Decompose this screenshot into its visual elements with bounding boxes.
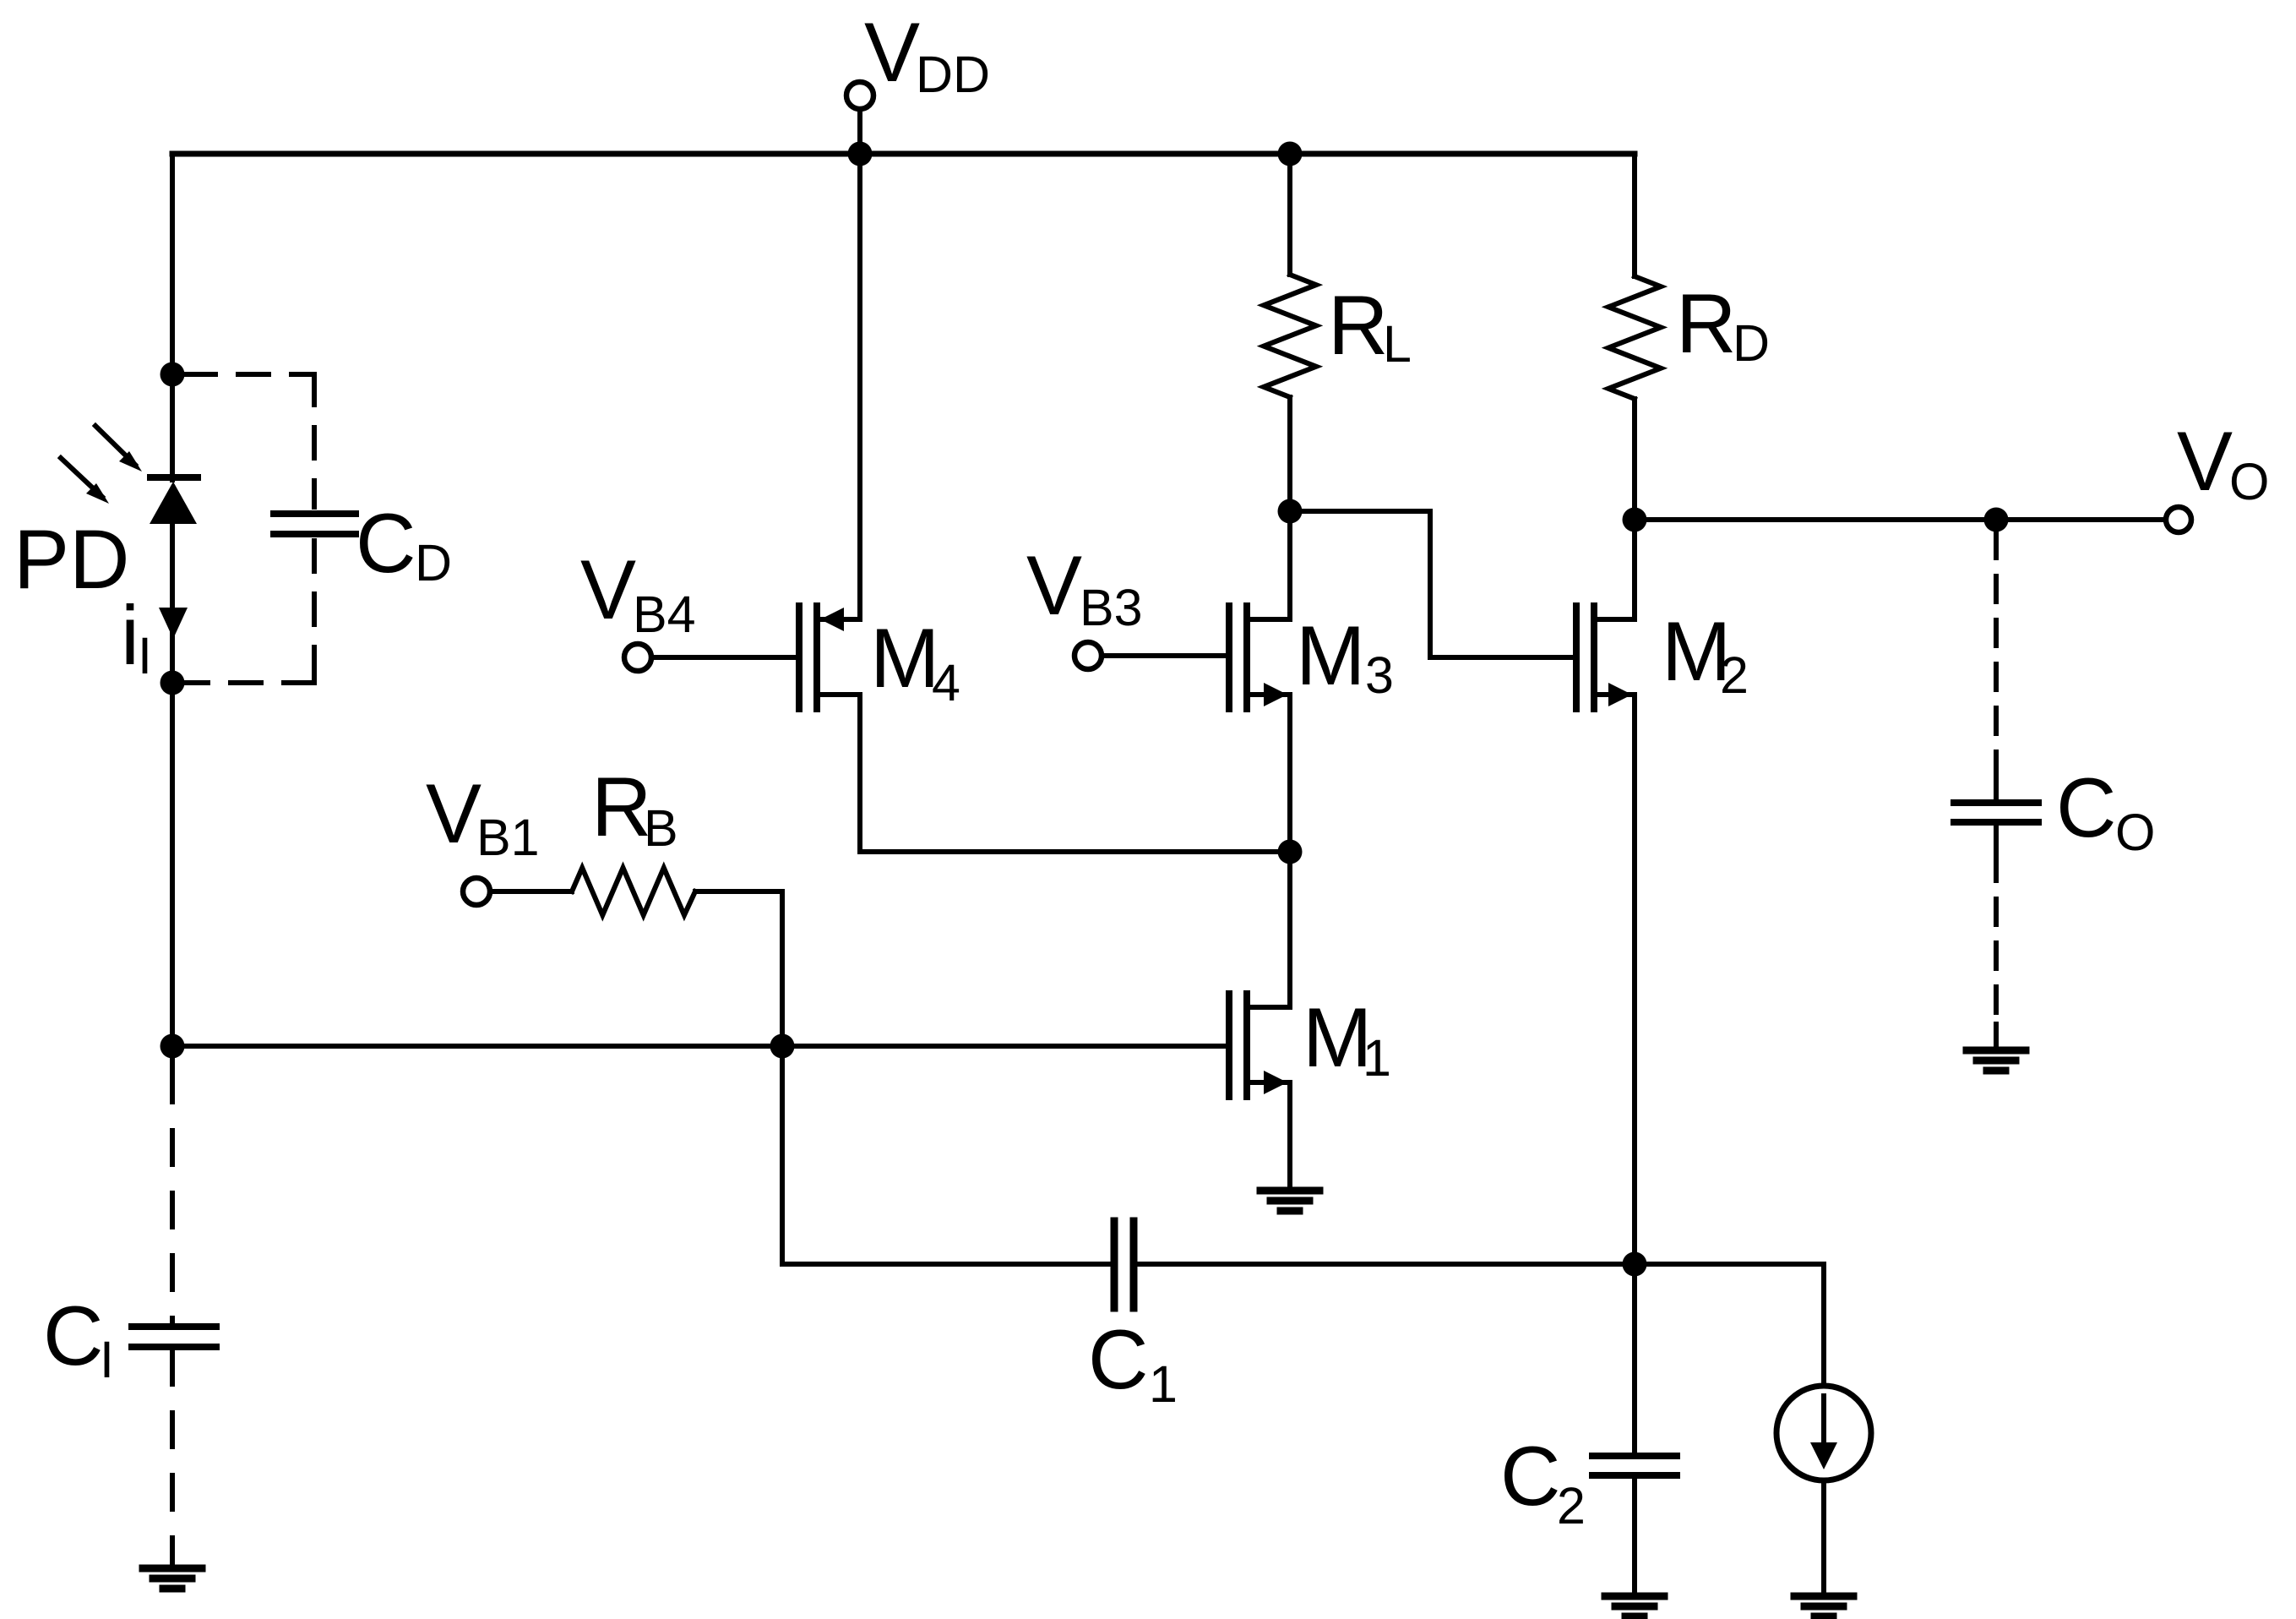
svg-text:V: V (426, 766, 482, 860)
wire PD cathode down with current arrow i_I (170, 522, 175, 1046)
node left gate row junction (161, 1034, 185, 1059)
capacitor C_I plates (132, 1327, 216, 1347)
label C_1 (1088, 1312, 1178, 1413)
label R_D (1676, 276, 1770, 372)
label V_B4 (580, 542, 696, 643)
svg-text:D: D (415, 534, 452, 591)
label M2 (1662, 604, 1749, 704)
node V_O at R_D/M2 drain (1623, 508, 1647, 532)
ground C2 (1605, 1596, 1664, 1616)
node VDD rail junction (848, 142, 873, 166)
wire left vertical from rail to PD anode (170, 154, 175, 480)
label R_B (591, 760, 678, 857)
svg-text:3: 3 (1365, 646, 1394, 704)
svg-text:1: 1 (1149, 1355, 1178, 1413)
svg-text:V: V (864, 5, 920, 99)
svg-text:O: O (2229, 453, 2269, 510)
label V_B3 (1026, 538, 1143, 636)
capacitor C_D dashed box (185, 374, 314, 683)
wire cascode node down to M1 drain (1287, 852, 1292, 1007)
node rail R_L junction (1278, 142, 1303, 166)
svg-text:DD: DD (916, 46, 990, 103)
capacitor C_O dashed leads (1994, 532, 1999, 1028)
capacitor C_O plates (1954, 803, 2038, 822)
wire M4 drain down and right to cascode node (860, 695, 1290, 852)
svg-text:2: 2 (1557, 1477, 1586, 1535)
svg-text:V: V (580, 542, 636, 636)
label C_D (356, 496, 452, 591)
svg-text:4: 4 (932, 654, 960, 711)
wire R_L to junction (1287, 397, 1292, 511)
wire R_D to V_O node (1632, 399, 1637, 520)
label R_L (1328, 278, 1412, 373)
node R_B column junction (770, 1034, 795, 1059)
photodiode PD (150, 477, 198, 524)
wire R_B to gate row and C1 (695, 891, 1111, 1264)
ground current source (1794, 1596, 1853, 1616)
light arrow 1 (95, 426, 142, 472)
capacitor C2 plates (1592, 1456, 1677, 1475)
ground C_I (143, 1568, 202, 1589)
wire M2 source down to C2 node (1632, 695, 1637, 1264)
svg-text:R: R (591, 760, 652, 853)
wire current source to ground (1821, 1480, 1826, 1596)
node R_L bottom junction (1278, 499, 1303, 524)
label V_B1 (426, 766, 540, 866)
terminal V_B3 (1075, 642, 1102, 669)
svg-text:B3: B3 (1080, 579, 1143, 636)
node cascode junction M4/M3/M1 (1278, 840, 1303, 864)
terminal V_B1 (463, 878, 490, 905)
svg-text:V: V (2177, 414, 2233, 508)
label V_DD (864, 5, 990, 103)
terminal V_O (2166, 507, 2191, 532)
wire C2 to ground (1632, 1479, 1637, 1596)
transistor M2 (1576, 606, 1635, 709)
transistor M3 (1229, 606, 1290, 709)
svg-text:B4: B4 (633, 586, 696, 643)
svg-text:C: C (43, 1289, 104, 1382)
terminal V_B4 (624, 644, 651, 671)
svg-text:1: 1 (1363, 1029, 1391, 1087)
wire C2 node down to C2 (1632, 1264, 1637, 1453)
capacitor C_I dashed leads (170, 1046, 175, 1068)
wire VDD rail to M4 source (857, 154, 862, 619)
svg-text:V: V (1026, 538, 1082, 632)
svg-text:i: i (121, 588, 139, 682)
label M4 (870, 611, 960, 711)
label M3 (1296, 608, 1394, 704)
svg-text:C: C (1500, 1429, 1561, 1523)
svg-text:C: C (2056, 760, 2117, 854)
svg-text:2: 2 (1720, 646, 1749, 704)
wire V_O row (1635, 517, 2165, 522)
label C_2 (1500, 1429, 1586, 1535)
light arrow 2 (61, 458, 109, 504)
label V_O (2177, 414, 2269, 510)
wire M2 drain up (1632, 520, 1637, 619)
transistor M4 (799, 606, 860, 709)
node C2 junction (1623, 1252, 1647, 1277)
transistor M1 (1229, 994, 1290, 1097)
svg-text:PD: PD (14, 512, 130, 606)
svg-text:O: O (2115, 804, 2155, 861)
wire R_L junction to M2 gate (1290, 511, 1576, 657)
svg-text:I: I (100, 1331, 114, 1388)
label C_O (2056, 760, 2155, 861)
svg-text:C: C (356, 496, 416, 590)
current source I (1776, 1386, 1871, 1480)
svg-text:D: D (1733, 314, 1770, 372)
wire V_B4 to M4 gate (651, 655, 799, 660)
wire rail to R_L (1287, 154, 1292, 275)
node PD bottom junction (161, 671, 185, 695)
wire top VDD rail (172, 151, 1635, 157)
resistor R_D (1608, 276, 1661, 399)
label i_I (121, 588, 152, 684)
node PD top junction (161, 363, 185, 387)
wire V_B3 to M3 gate (1102, 653, 1229, 658)
wire C2 node to current source (1635, 1264, 1824, 1386)
wire rail corner down to R_D (1632, 154, 1637, 276)
ground C_O (1967, 1050, 2026, 1071)
wire M1 gate row (172, 1044, 1229, 1049)
svg-text:M: M (1296, 608, 1365, 702)
svg-text:M: M (870, 611, 939, 705)
capacitor C_D plates (274, 514, 356, 534)
svg-text:B1: B1 (476, 809, 540, 866)
svg-text:C: C (1088, 1312, 1149, 1406)
ground M1 (1260, 1191, 1319, 1211)
label C_I (43, 1289, 114, 1388)
wire M3 source down to cascode node (1287, 695, 1292, 852)
terminal VDD (846, 82, 873, 109)
svg-text:I: I (138, 627, 152, 684)
resistor R_B (572, 868, 695, 915)
svg-text:L: L (1383, 315, 1412, 373)
wire R_L junction to M3 drain (1287, 511, 1292, 619)
wire V_B1 to R_B (490, 889, 572, 894)
svg-text:B: B (644, 799, 678, 857)
svg-text:R: R (1676, 276, 1737, 370)
node V_O at C_O (1984, 508, 2009, 532)
capacitor C1 (1114, 1221, 1134, 1308)
wire C1 to M2 source column (1137, 1262, 1635, 1267)
svg-text:R: R (1328, 278, 1389, 372)
label M1 (1303, 990, 1391, 1087)
resistor R_L (1264, 275, 1316, 397)
wire M1 source to ground (1287, 1082, 1292, 1191)
